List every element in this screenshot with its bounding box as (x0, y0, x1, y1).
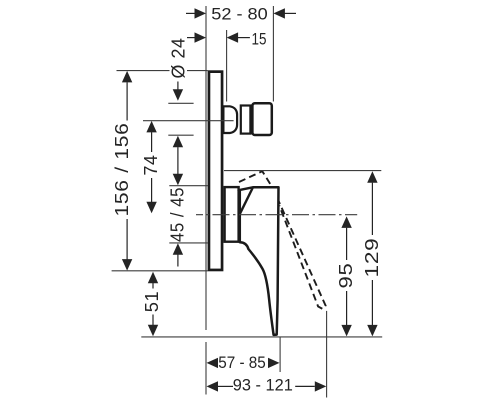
svg-text:57 - 85: 57 - 85 (218, 354, 266, 372)
escutcheon plate (side view) (209, 72, 222, 270)
spout ring B (241, 106, 251, 134)
svg-text:51: 51 (142, 291, 162, 313)
spout nose C (252, 103, 271, 135)
dimension 15 (187, 32, 250, 42)
dimension 156/156 (122, 71, 132, 271)
svg-text:Ø 24: Ø 24 (168, 38, 188, 79)
handle top ext (224, 170, 381, 172)
plate bottom ext (112, 270, 208, 272)
cartridge axis (dash-dot) (196, 214, 357, 216)
sleeve top ext (169, 185, 207, 187)
sleeve bottom ext (169, 242, 207, 244)
dimension Ø24 (173, 82, 183, 267)
dimension 51 (148, 272, 158, 337)
dimension 93-121 (207, 381, 327, 391)
spout top ext (168, 102, 193, 104)
57-85 right ext (279, 337, 281, 372)
plate top ext (117, 70, 208, 72)
spout bottom ext (168, 134, 193, 136)
spout axis (143, 120, 234, 122)
svg-text:52 - 80: 52 - 80 (211, 6, 268, 24)
svg-text:129: 129 (362, 238, 382, 278)
handle bottom ext (141, 336, 382, 338)
svg-text:156 / 156: 156 / 156 (112, 123, 132, 217)
svg-text:74: 74 (141, 155, 161, 176)
dimension 95 (341, 216, 351, 336)
lever head front crease (239, 188, 252, 215)
wall line (205, 6, 207, 395)
dimension 57-85 (207, 358, 280, 368)
dashed handle (raised position) (239, 171, 326, 309)
svg-text:15: 15 (252, 30, 267, 48)
line 52-80 right (272, 6, 274, 102)
dimension 52-80 (186, 8, 296, 18)
dimension 74 (146, 121, 156, 213)
svg-text:95: 95 (336, 263, 356, 289)
svg-text:93 - 121: 93 - 121 (233, 377, 293, 395)
svg-text:45 / 45: 45 / 45 (167, 187, 187, 242)
lever handle (solid, down position) (239, 187, 279, 335)
spout cone A (223, 106, 237, 133)
line 15 right (226, 30, 228, 102)
dimension 129 (367, 171, 377, 336)
93-121 right ext (326, 311, 328, 398)
cartridge sleeve (225, 187, 239, 242)
extension lines (112, 6, 383, 398)
